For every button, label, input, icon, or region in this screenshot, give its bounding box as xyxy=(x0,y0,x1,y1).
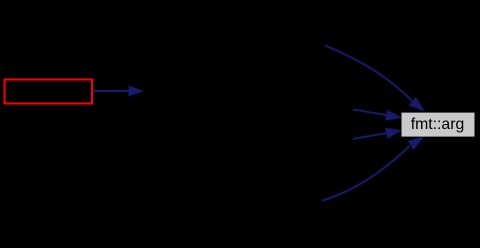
arrowhead of lower straight edge xyxy=(386,128,401,138)
svg-text:fmt::arg: fmt::arg xyxy=(411,116,465,133)
wire: lower straight edge into fmt::arg xyxy=(353,133,387,139)
node: fmt::arg (current function, grey fill) xyxy=(402,113,475,137)
arrowhead of edge from red box xyxy=(129,86,143,96)
arrowhead of bottom curved edge xyxy=(408,137,422,149)
node: red-bordered caller box (truncated node) xyxy=(5,80,93,104)
wire: top curved edge into fmt::arg xyxy=(325,46,413,102)
wire: upper straight edge into fmt::arg xyxy=(353,109,387,115)
arrowhead of top curved edge xyxy=(410,98,424,111)
wire: edge from red box to hidden middle node xyxy=(93,90,129,92)
arrowhead of upper straight edge xyxy=(386,110,401,120)
wire: bottom curved edge into fmt::arg xyxy=(322,146,410,201)
